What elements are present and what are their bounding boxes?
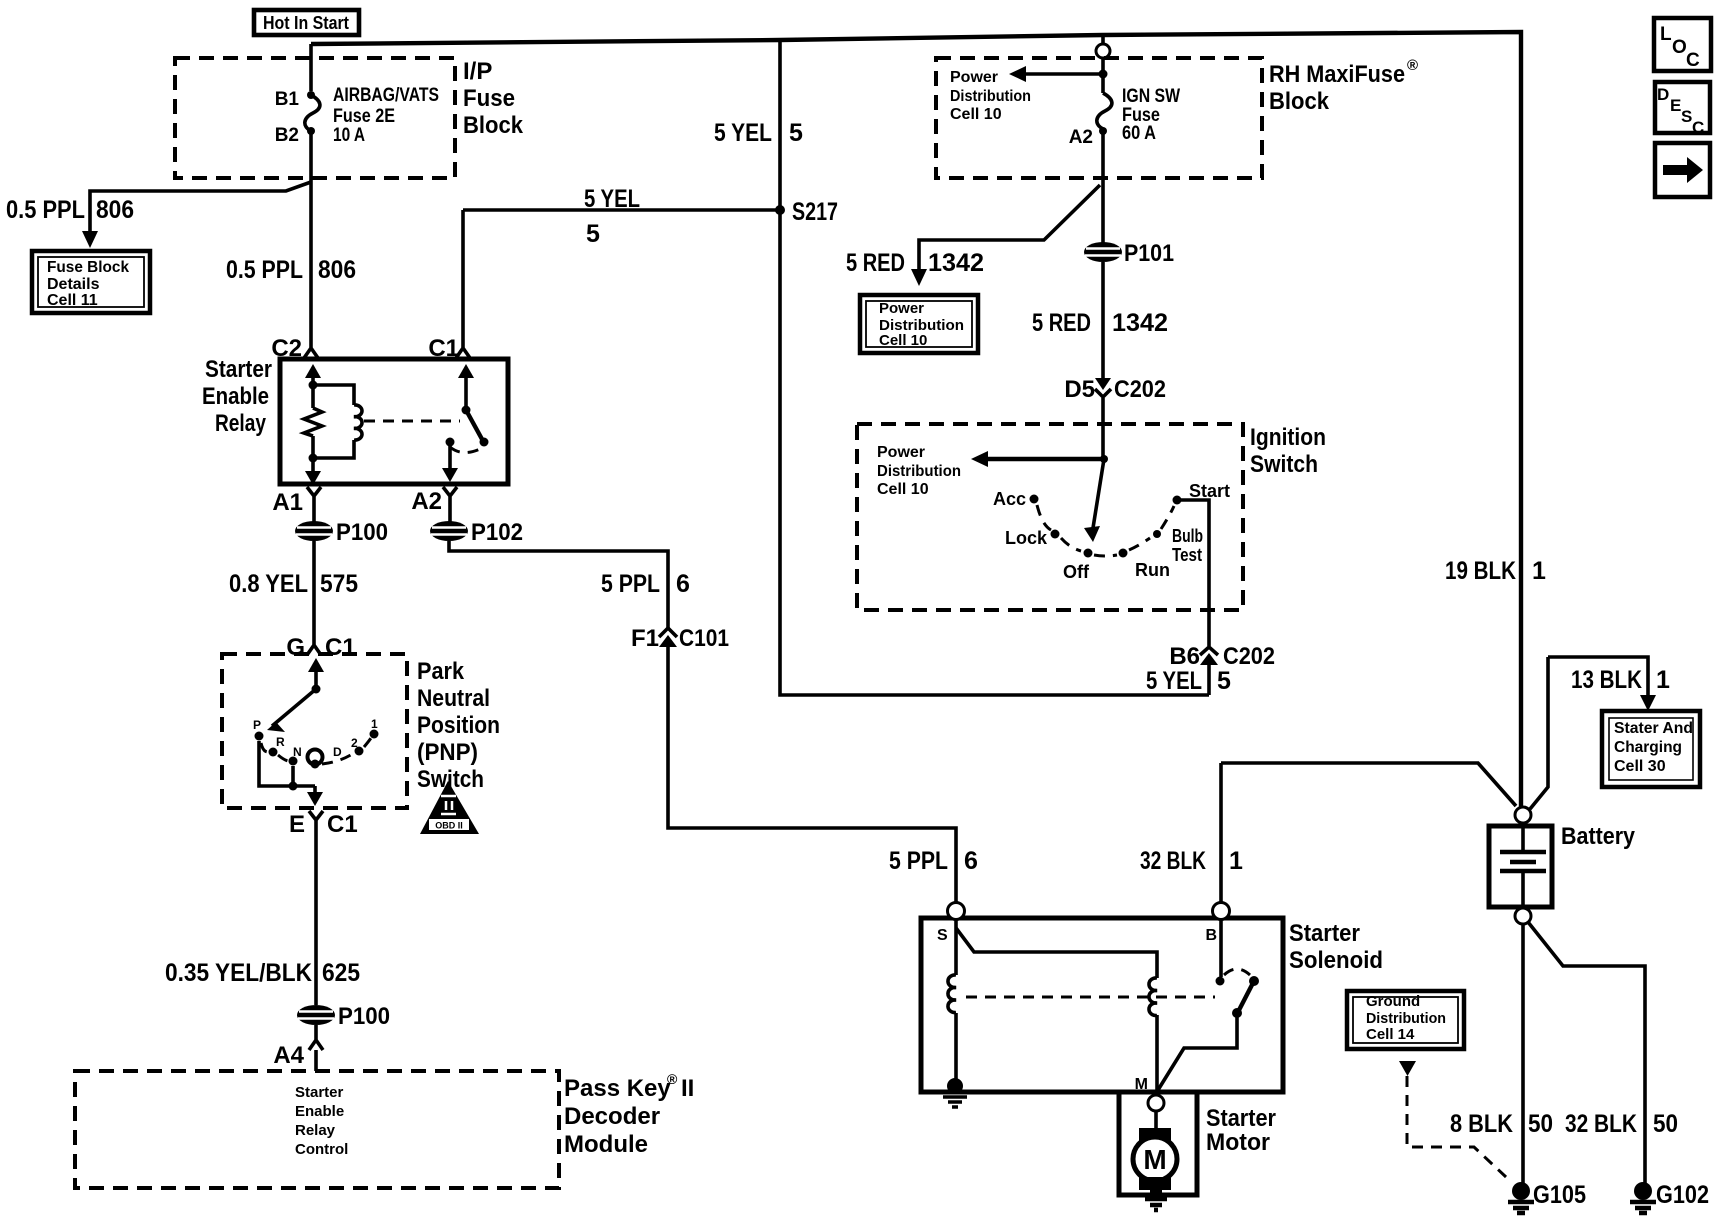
svg-text:5 YEL: 5 YEL (714, 119, 772, 147)
svg-text:S: S (1681, 107, 1692, 126)
svg-text:Cell 30: Cell 30 (1614, 758, 1666, 775)
svg-text:A1: A1 (272, 489, 303, 516)
svg-text:5 RED: 5 RED (1032, 309, 1091, 337)
svg-text:F1: F1 (631, 625, 659, 652)
svg-text:Stater And: Stater And (1614, 720, 1693, 737)
svg-text:C1: C1 (327, 811, 358, 838)
svg-text:Block: Block (463, 112, 524, 139)
svg-text:P100: P100 (338, 1003, 390, 1030)
svg-text:Starter: Starter (205, 356, 272, 383)
svg-text:1: 1 (1532, 557, 1546, 585)
svg-text:Enable: Enable (295, 1103, 344, 1120)
svg-text:Cell 10: Cell 10 (879, 332, 927, 349)
svg-text:Cell 14: Cell 14 (1366, 1026, 1415, 1043)
svg-text:Distribution: Distribution (1366, 1010, 1446, 1027)
svg-text:AIRBAG/VATS: AIRBAG/VATS (333, 85, 439, 106)
svg-text:P102: P102 (471, 519, 523, 546)
svg-text:Position: Position (417, 712, 500, 739)
svg-text:Power: Power (879, 300, 924, 317)
svg-text:0.5 PPL: 0.5 PPL (6, 196, 85, 224)
svg-text:Solenoid: Solenoid (1289, 947, 1383, 974)
svg-text:Starter: Starter (1289, 920, 1360, 947)
svg-text:®: ® (667, 1071, 678, 1087)
svg-text:P101: P101 (1124, 240, 1174, 267)
svg-text:1: 1 (1656, 666, 1670, 694)
svg-text:I/P: I/P (463, 58, 492, 85)
svg-text:Hot In Start: Hot In Start (263, 13, 349, 33)
svg-text:5 PPL: 5 PPL (889, 847, 948, 875)
svg-text:C202: C202 (1223, 643, 1275, 670)
svg-text:Bulb: Bulb (1172, 526, 1203, 546)
svg-text:5: 5 (789, 119, 803, 147)
svg-text:Neutral: Neutral (417, 685, 490, 712)
svg-text:Ground: Ground (1366, 993, 1420, 1010)
svg-text:1: 1 (1229, 847, 1243, 875)
svg-text:625: 625 (322, 959, 360, 987)
svg-text:C: C (1686, 50, 1700, 71)
svg-text:5: 5 (586, 220, 600, 248)
svg-text:1342: 1342 (928, 249, 984, 277)
svg-text:Details: Details (47, 276, 100, 293)
svg-text:G: G (286, 634, 305, 661)
svg-text:2: 2 (351, 736, 358, 750)
svg-text:B2: B2 (275, 125, 299, 146)
svg-text:Off: Off (1063, 562, 1090, 582)
svg-text:Enable: Enable (202, 383, 269, 410)
svg-text:E: E (289, 811, 305, 838)
svg-text:Starter: Starter (1206, 1105, 1276, 1132)
svg-text:0.35 YEL/BLK: 0.35 YEL/BLK (165, 959, 312, 987)
svg-text:A4: A4 (273, 1042, 304, 1069)
svg-text:P: P (253, 718, 261, 732)
svg-text:S: S (937, 927, 948, 944)
svg-text:Cell 11: Cell 11 (47, 292, 98, 309)
svg-text:B: B (1205, 927, 1217, 944)
svg-text:B1: B1 (275, 89, 300, 110)
svg-text:13 BLK: 13 BLK (1571, 666, 1642, 694)
svg-text:Start: Start (1189, 481, 1230, 501)
svg-text:Distribution: Distribution (950, 88, 1031, 105)
svg-text:Battery: Battery (1561, 823, 1636, 850)
svg-text:1: 1 (371, 717, 378, 731)
svg-text:Motor: Motor (1206, 1129, 1270, 1156)
svg-text:A2: A2 (411, 488, 442, 515)
svg-text:Test: Test (1172, 545, 1202, 565)
svg-text:575: 575 (320, 570, 358, 598)
svg-text:G105: G105 (1533, 1181, 1586, 1209)
svg-text:O: O (1672, 37, 1687, 58)
svg-text:50: 50 (1653, 1110, 1678, 1138)
svg-text:C: C (1692, 118, 1704, 137)
svg-text:C202: C202 (1114, 376, 1166, 403)
svg-text:Relay: Relay (295, 1122, 336, 1139)
svg-text:II: II (681, 1075, 694, 1102)
svg-text:806: 806 (96, 196, 134, 224)
svg-text:806: 806 (318, 256, 356, 284)
svg-text:RH MaxiFuse: RH MaxiFuse (1269, 61, 1405, 88)
svg-text:Ignition: Ignition (1250, 424, 1326, 451)
svg-text:Block: Block (1269, 88, 1330, 115)
svg-text:C101: C101 (679, 625, 729, 652)
svg-text:Run: Run (1135, 560, 1170, 580)
svg-text:Cell 10: Cell 10 (877, 481, 929, 498)
svg-text:S217: S217 (792, 198, 838, 226)
svg-text:5: 5 (1217, 667, 1231, 695)
svg-text:5 RED: 5 RED (846, 249, 905, 277)
svg-text:5 YEL: 5 YEL (584, 185, 640, 213)
svg-text:R: R (276, 735, 285, 749)
svg-text:32 BLK: 32 BLK (1140, 847, 1206, 875)
svg-text:OBD II: OBD II (435, 821, 463, 831)
svg-text:8 BLK: 8 BLK (1450, 1110, 1513, 1138)
svg-text:5 YEL: 5 YEL (1146, 667, 1202, 695)
svg-text:60 A: 60 A (1122, 123, 1156, 144)
svg-text:Switch: Switch (1250, 451, 1318, 478)
svg-text:M: M (1143, 1144, 1166, 1175)
svg-text:Park: Park (417, 658, 465, 685)
svg-text:P100: P100 (336, 519, 388, 546)
svg-text:Charging: Charging (1614, 739, 1682, 756)
svg-text:D5: D5 (1064, 376, 1095, 403)
svg-text:Fuse 2E: Fuse 2E (333, 106, 395, 127)
svg-text:D: D (1657, 85, 1669, 104)
svg-text:A2: A2 (1069, 127, 1093, 148)
svg-text:Starter: Starter (295, 1084, 344, 1101)
svg-text:1342: 1342 (1112, 309, 1168, 337)
svg-text:Fuse: Fuse (463, 85, 515, 112)
svg-text:Power: Power (877, 444, 925, 461)
svg-text:C1: C1 (325, 634, 356, 661)
svg-text:®: ® (1407, 57, 1418, 74)
svg-text:Distribution: Distribution (877, 463, 961, 480)
svg-text:19 BLK: 19 BLK (1445, 557, 1516, 585)
svg-text:Relay: Relay (215, 410, 267, 437)
svg-text:32 BLK: 32 BLK (1565, 1110, 1637, 1138)
svg-text:0.5 PPL: 0.5 PPL (226, 256, 303, 284)
svg-text:5 PPL: 5 PPL (601, 570, 660, 598)
svg-text:Power: Power (950, 69, 998, 86)
svg-text:B6: B6 (1169, 643, 1200, 670)
svg-text:G102: G102 (1656, 1181, 1709, 1209)
svg-text:Module: Module (564, 1131, 648, 1158)
svg-text:0.8 YEL: 0.8 YEL (229, 570, 308, 598)
svg-text:N: N (293, 745, 302, 759)
svg-text:Pass Key: Pass Key (564, 1075, 671, 1102)
svg-text:D: D (333, 745, 342, 759)
svg-text:Control: Control (295, 1141, 348, 1158)
svg-text:6: 6 (964, 847, 978, 875)
svg-text:(PNP): (PNP) (417, 739, 478, 766)
svg-text:E: E (1670, 96, 1681, 115)
svg-text:Cell 10: Cell 10 (950, 106, 1002, 123)
svg-text:L: L (1660, 24, 1672, 45)
svg-text:6: 6 (676, 570, 690, 598)
svg-text:10 A: 10 A (333, 125, 365, 146)
svg-text:Decoder: Decoder (564, 1103, 660, 1130)
svg-text:Acc: Acc (993, 489, 1026, 509)
svg-text:Fuse Block: Fuse Block (47, 259, 129, 276)
svg-text:Lock: Lock (1005, 528, 1048, 548)
svg-text:IGN SW: IGN SW (1122, 86, 1180, 107)
svg-text:50: 50 (1528, 1110, 1553, 1138)
